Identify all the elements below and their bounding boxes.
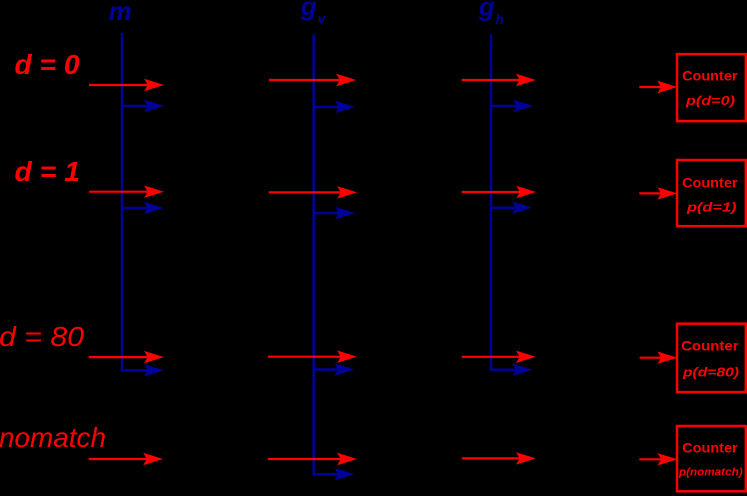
svg-text:Counter: Counter	[682, 441, 738, 456]
svg-text:Counter: Counter	[682, 68, 738, 83]
svg-text:h: h	[496, 12, 504, 27]
svg-text:p(d=0): p(d=0)	[685, 93, 735, 108]
svg-text:g: g	[478, 0, 495, 21]
svg-text:p(d=80): p(d=80)	[682, 365, 739, 380]
svg-text:p(d=1): p(d=1)	[686, 200, 737, 215]
svg-text:g: g	[300, 0, 317, 21]
svg-text:Counter: Counter	[682, 175, 738, 190]
svg-text:d = 80: d = 80	[0, 321, 84, 352]
svg-text:m: m	[109, 0, 132, 26]
svg-text:nomatch: nomatch	[0, 422, 106, 453]
svg-text:Counter: Counter	[681, 338, 739, 353]
svg-text:d = 0: d = 0	[15, 49, 80, 80]
svg-text:p(nomatch): p(nomatch)	[678, 467, 743, 479]
svg-text:d = 1: d = 1	[15, 156, 81, 187]
